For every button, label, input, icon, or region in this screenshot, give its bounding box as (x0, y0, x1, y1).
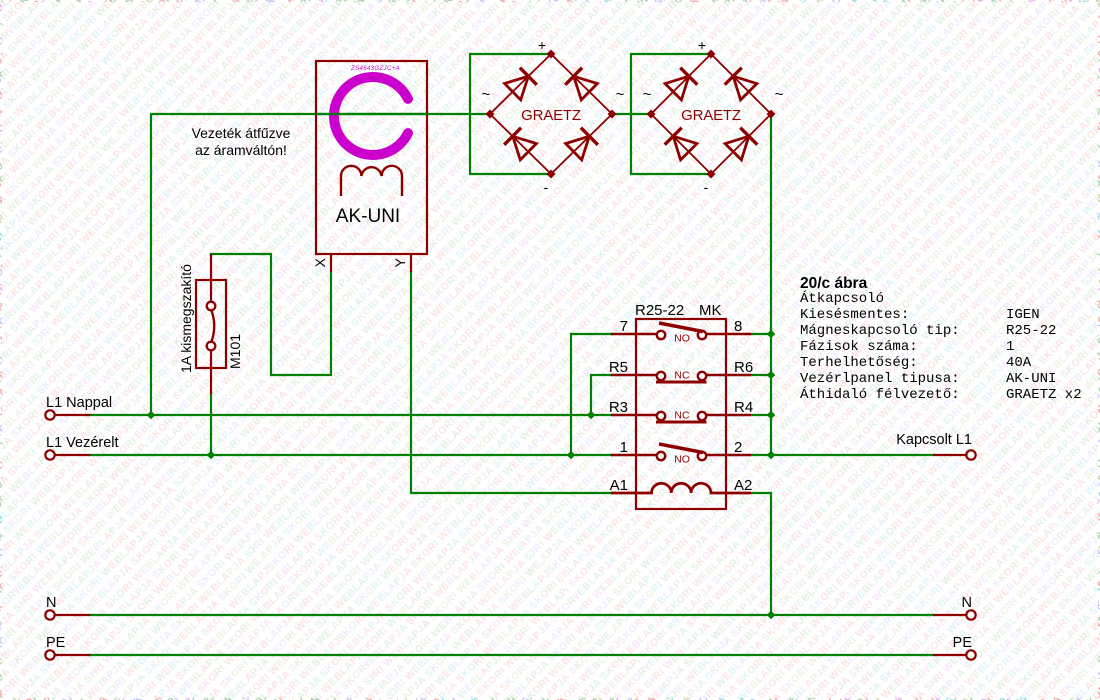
control panel U1 AK-UNI box (316, 61, 427, 254)
svg-text:R5: R5 (609, 359, 628, 376)
wire relay pin 7 down to pin 1 (L1 Vezerelt) (571, 334, 611, 455)
diode B1 D2 (top-right) (574, 76, 598, 100)
svg-text:PE: PE (46, 635, 66, 651)
wire relay pin R4 to bus (751, 414, 771, 416)
pin X stub (330, 254, 332, 272)
svg-text:AK-UNI: AK-UNI (336, 206, 400, 227)
svg-text:Kapcsolt L1: Kapcsolt L1 (896, 432, 972, 448)
svg-text:R4: R4 (734, 399, 753, 416)
wire L1 Vezerelt rail (90, 454, 611, 456)
wire bypass loop B1 (+ to -) (470, 54, 551, 174)
terminal L1 Nappal (45, 410, 54, 419)
svg-text:1: 1 (620, 439, 628, 456)
breaker contact circle top (207, 302, 216, 311)
wire breaker bottom to L1 Vezerelt (210, 394, 212, 455)
terminal Kapcsolt L1 (966, 450, 975, 459)
svg-text:L1 Nappal: L1 Nappal (46, 395, 112, 411)
relay contact 1/2 (NO) (611, 454, 657, 456)
wire Kapcsolt L1 (751, 454, 933, 456)
svg-text:~: ~ (616, 86, 625, 103)
terminal PE left (45, 650, 54, 659)
node B2 minus (707, 170, 716, 179)
svg-text:M101: M101 (227, 334, 243, 369)
svg-text:1: 1 (1006, 339, 1014, 355)
svg-text:R3: R3 (609, 399, 628, 416)
node B1 AC-right (608, 110, 617, 119)
wire bridge B2 to relay bus (770, 114, 772, 455)
junction bus pin R4 (767, 411, 776, 420)
svg-text:R6: R6 (734, 359, 753, 376)
pin Y stub (410, 254, 412, 272)
svg-text:NC: NC (674, 410, 690, 422)
junction pin1 riser (567, 451, 576, 460)
svg-text:N: N (962, 595, 972, 611)
svg-text:ZS4643GZJC+A: ZS4643GZJC+A (350, 66, 400, 72)
terminal N right (966, 610, 975, 619)
node B2 AC-left (647, 110, 656, 119)
svg-text:GRAETZ x2: GRAETZ x2 (1006, 387, 1082, 403)
wire N rail left (90, 614, 933, 616)
relay coil A1/A2 (611, 483, 751, 493)
wire breaker top to pin X (211, 254, 331, 375)
junction L1 Nappal / CT riser (147, 411, 156, 420)
svg-text:~: ~ (482, 86, 491, 103)
wire relay pin R5 down to pin R3 (L1 Nappal) (591, 375, 611, 415)
svg-text:NC: NC (674, 370, 690, 382)
svg-text:40A: 40A (1006, 355, 1032, 371)
svg-text:NO: NO (674, 454, 690, 466)
svg-text:8: 8 (734, 318, 742, 335)
svg-text:Áthidaló félvezető:: Áthidaló félvezető: (800, 385, 960, 403)
bridge rectifier B2 frame (651, 54, 771, 174)
svg-text:PE: PE (953, 635, 973, 651)
svg-text:+: + (538, 37, 546, 53)
relay contact 7/8 (NO) (611, 333, 657, 335)
svg-text:L1 Vezérelt: L1 Vezérelt (46, 435, 119, 451)
node B2 AC-right (767, 110, 776, 119)
spec table (800, 289, 1082, 403)
svg-text:+: + (698, 37, 706, 53)
svg-text:20/c ábra: 20/c ábra (800, 275, 868, 292)
CT core ring (magenta C) (334, 77, 408, 155)
diode B2 D2 (top-right) (733, 76, 757, 100)
junction bus pin R6 (767, 371, 776, 380)
svg-text:~: ~ (643, 86, 652, 103)
wire relay coil A2 down to N rail (751, 493, 771, 615)
svg-text:-: - (544, 179, 549, 195)
relay contact R5/R6 (NC) (611, 374, 657, 376)
diode B1 D4 (bottom-right) (566, 136, 590, 160)
wire relay pin R6 to bus (751, 374, 771, 376)
svg-text:Vezeték átfűzve: Vezeték átfűzve (192, 125, 291, 141)
diode B2 D4 (bottom-right) (725, 136, 749, 160)
terminal L1 Vezerelt (45, 450, 54, 459)
svg-text:Kiesésmentes:: Kiesésmentes: (800, 307, 909, 323)
breaker contact circle bottom (207, 342, 216, 351)
svg-text:Terhelhetőség:: Terhelhetőség: (800, 355, 918, 371)
svg-text:IGEN: IGEN (1006, 307, 1040, 323)
svg-text:az áramváltón!: az áramváltón! (195, 142, 287, 158)
wire through current transformer (L1 Nappal up and through CT) (151, 114, 490, 415)
bridge rectifier B1 frame (490, 54, 612, 174)
svg-text:A2: A2 (734, 477, 752, 494)
svg-text:MK: MK (699, 302, 722, 319)
breaker bottom lead (210, 351, 212, 394)
svg-text:Mágneskapcsoló tip:: Mágneskapcsoló tip: (800, 323, 960, 339)
svg-text:A1: A1 (610, 477, 628, 494)
svg-text:Y: Y (392, 257, 408, 267)
svg-text:1A kismegszakító: 1A kismegszakító (178, 264, 194, 373)
svg-text:Vezérlpanel tipusa:: Vezérlpanel tipusa: (800, 371, 960, 387)
svg-text:~: ~ (775, 86, 784, 103)
svg-text:Fázisok száma:: Fázisok száma: (800, 339, 918, 355)
svg-text:2: 2 (734, 439, 742, 456)
node B2 plus (707, 50, 716, 59)
CT secondary coil (341, 166, 402, 196)
relay contact R3/R4 (NC) (611, 414, 657, 416)
node B1 plus (547, 50, 556, 59)
terminal N left (45, 610, 54, 619)
junction N rail / A2 (767, 611, 776, 620)
node B1 AC-left (486, 110, 495, 119)
diode B1 D1 (top-left) (505, 76, 529, 100)
breaker top lead (210, 254, 212, 301)
wire bridge B1 to bridge B2 (612, 113, 651, 115)
svg-text:NO: NO (674, 333, 690, 345)
wire over CT core (316, 113, 427, 115)
breaker lever (212, 311, 215, 342)
relay K1 box (636, 319, 726, 509)
svg-text:-: - (704, 179, 709, 195)
svg-text:R25-22: R25-22 (1006, 323, 1056, 339)
wire PE rail (90, 654, 933, 656)
svg-text:N: N (46, 595, 56, 611)
svg-text:GRAETZ: GRAETZ (521, 107, 581, 124)
junction bus pin 8 (767, 330, 776, 339)
junction L1 Vezerelt / breaker (207, 451, 216, 460)
junction pin R3 riser (587, 411, 596, 420)
svg-text:X: X (312, 257, 328, 267)
wire L1 Nappal rail (90, 414, 611, 416)
breaker M101 box (196, 280, 226, 368)
diode B2 D1 (top-left) (665, 76, 689, 100)
terminal PE right (966, 650, 975, 659)
svg-text:AK-UNI: AK-UNI (1006, 371, 1056, 387)
node B1 minus (547, 170, 556, 179)
svg-text:R25-22: R25-22 (635, 302, 684, 319)
wire bypass loop B2 (+ to -) (631, 54, 711, 174)
diode B1 D3 (bottom-left) (513, 136, 537, 160)
junction bus pin 2 (767, 451, 776, 460)
diode B2 D3 (bottom-left) (673, 136, 697, 160)
svg-text:Átkapcsoló: Átkapcsoló (800, 289, 884, 307)
svg-text:7: 7 (620, 318, 628, 335)
wire pin Y to relay coil A1 (411, 272, 611, 493)
wire relay pin 8 to bus (751, 333, 771, 335)
svg-text:GRAETZ: GRAETZ (681, 107, 741, 124)
